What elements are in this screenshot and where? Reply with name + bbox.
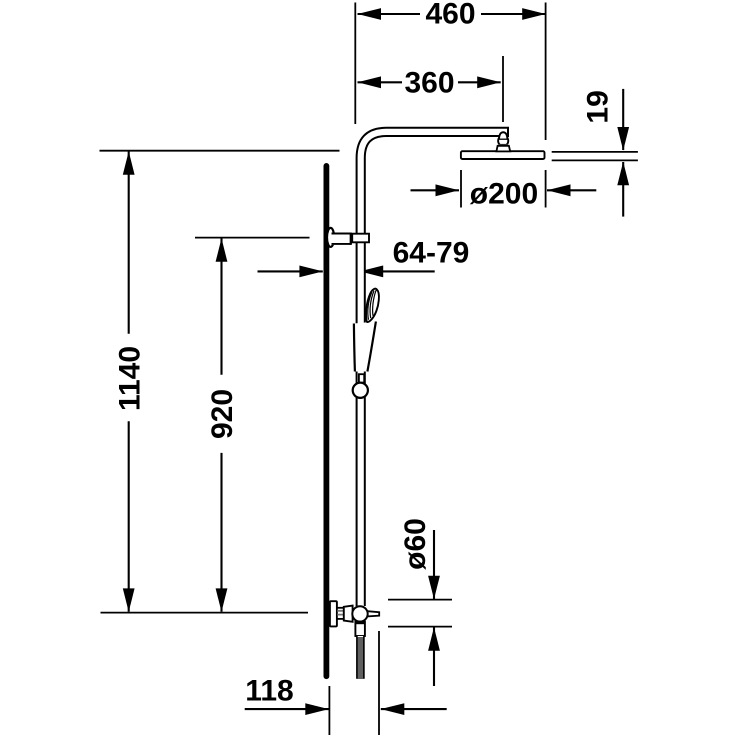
svg-text:ø200: ø200 <box>470 178 538 211</box>
svg-text:920: 920 <box>206 389 239 439</box>
svg-text:1140: 1140 <box>114 346 147 411</box>
svg-text:360: 360 <box>404 66 454 99</box>
svg-text:ø60: ø60 <box>399 518 432 570</box>
svg-text:19: 19 <box>581 90 614 123</box>
svg-text:460: 460 <box>425 0 475 31</box>
svg-text:118: 118 <box>245 675 293 708</box>
svg-text:64-79: 64-79 <box>393 236 470 269</box>
